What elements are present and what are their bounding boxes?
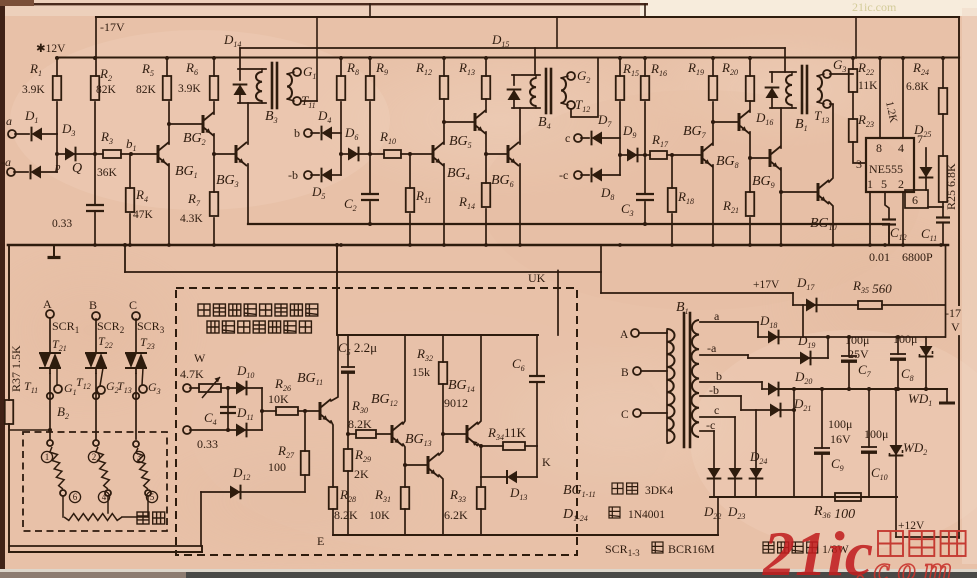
diode D3 (65, 147, 76, 160)
diode D14 (233, 85, 246, 96)
wire col to D6 (341, 153, 348, 155)
svg-text:9012: 9012 (444, 396, 468, 410)
wire C9 col bot (821, 455, 823, 497)
wire B3 primary top (238, 68, 266, 70)
paper mottling 3 (190, 310, 670, 550)
wire bottom supply rail (710, 496, 897, 498)
wire R5 stub (166, 58, 168, 76)
svg-text:6800P: 6800P (902, 250, 933, 264)
junction (128, 243, 132, 247)
wire BG11 emitter (331, 421, 333, 487)
wire D10 cathode (244, 387, 262, 389)
wire BG10 emitter (829, 202, 833, 245)
resistor R18 (668, 188, 677, 212)
wire +17V row a (793, 304, 806, 306)
junction (831, 243, 835, 247)
junction (851, 56, 855, 60)
terminal G3 (823, 70, 831, 78)
svg-text:B: B (89, 298, 97, 312)
svg-text:R3411K: R3411K (487, 425, 526, 442)
junction (518, 243, 522, 247)
wire pin8 up (879, 58, 881, 138)
wire BG3 collector (247, 103, 249, 144)
transformer B1 secondary coil (817, 76, 822, 102)
resistor R8 (337, 76, 346, 100)
transformer B4 primary coil (530, 78, 536, 106)
wire D3 to R3 (73, 153, 103, 155)
wire right edge lower (958, 336, 960, 538)
capacitor C2 (361, 193, 379, 195)
transistor BG3 (235, 145, 238, 163)
motor terminal 5 (145, 490, 151, 496)
wire BG6 emitter (519, 164, 521, 245)
svg-text:6.8K: 6.8K (906, 81, 929, 93)
wire R29 to E rail (347, 471, 349, 535)
wire B in (641, 370, 667, 372)
wire D12 return col (200, 492, 202, 546)
svg-text:1: 1 (45, 452, 50, 462)
svg-text:82K: 82K (136, 84, 157, 96)
transformer B1 core bar 2 (806, 66, 809, 113)
wire B3 sec top (287, 72, 294, 74)
wire BG6 collector (519, 108, 521, 144)
junction (867, 387, 871, 391)
svg-text:2K: 2K (354, 467, 369, 481)
wire B3 diode col top (239, 69, 241, 80)
wire BG14 collector (478, 444, 481, 487)
wire WD1 col top (925, 337, 927, 346)
wire C2 col (369, 154, 371, 194)
diode D10 (236, 381, 247, 394)
svg-text:15k: 15k (412, 365, 430, 379)
wire R33 to E rail (480, 509, 482, 535)
wire R1 stub (56, 58, 58, 76)
transformer B1 core bar 1 (801, 66, 804, 113)
svg-text:1N4001: 1N4001 (628, 509, 665, 521)
junction (123, 243, 127, 247)
wire row to cap033 (94, 154, 96, 205)
diode D5 (322, 168, 333, 181)
capacitor C9 (814, 447, 830, 449)
junction (618, 56, 622, 60)
pin6 box (905, 190, 928, 208)
svg-text:100: 100 (268, 460, 286, 474)
wire BG1 emitter (168, 164, 170, 245)
capacitor 0.33 (86, 204, 104, 206)
junction (48, 428, 52, 432)
resistor R7 (210, 192, 219, 216)
terminal B phase (633, 367, 641, 375)
diode D11 (236, 423, 247, 436)
junction (212, 243, 216, 247)
terminal -a (7, 168, 15, 176)
wire stub rail x557 (556, 17, 558, 48)
wire C3 col (644, 155, 646, 194)
wire bottom input (190, 429, 236, 431)
wire B1p coil stub (791, 72, 793, 75)
wire mid rail y224 (248, 223, 889, 225)
junction (408, 243, 412, 247)
wire +12V out (896, 536, 959, 538)
svg-text:-c: -c (706, 418, 715, 432)
wire gnd stub right (946, 389, 948, 402)
resistor R15 (616, 76, 625, 100)
scan top border line (0, 3, 648, 5)
wire input col (56, 134, 58, 172)
wire BG14 emitter (478, 335, 481, 424)
junction (93, 56, 97, 60)
wire x558 into box (557, 271, 559, 336)
motor terminal 4 (105, 490, 111, 496)
capacitor C8 (890, 353, 906, 355)
wire BG5 emitter to R14 (485, 132, 487, 183)
wire B1p diode col top (771, 72, 773, 82)
wire R24-R25 link (942, 114, 944, 156)
wire BG5 collector (485, 99, 487, 112)
resistor R19 (709, 76, 718, 100)
junction (896, 335, 900, 339)
svg-text:0.01: 0.01 (869, 250, 890, 264)
wire B3 primary bottom (238, 102, 266, 104)
junction (643, 56, 647, 60)
wire B1p primary bottom (770, 107, 796, 109)
wire +12V rail (58, 56, 959, 58)
wire BG9e to BG10 base (781, 191, 818, 193)
svg-text:82K: 82K (96, 84, 117, 96)
wire UK drop x337 (336, 245, 338, 335)
capacitor C12 (882, 218, 896, 220)
note dian-zu-jun-wei (resistors all) (763, 542, 774, 553)
wire D13 row left (481, 476, 507, 478)
wire R11 to rail (409, 214, 411, 245)
wire R37 link (9, 429, 50, 431)
wire BG12e to BG13 base (405, 464, 428, 466)
wire -b col (740, 396, 742, 410)
diode D15 (507, 90, 520, 101)
wire R1 to a-row (56, 102, 58, 134)
wire BG7c to BG8 base (713, 121, 739, 123)
junction (479, 444, 483, 448)
wire D23 bot (734, 476, 736, 497)
junction (643, 222, 647, 226)
wire C2 to rail224 (369, 202, 371, 224)
wire R31 col (404, 465, 406, 487)
wire C8 col bot (897, 361, 899, 389)
resistor R12 (440, 76, 449, 99)
triac SCR2 (85, 352, 107, 354)
svg-text:A: A (620, 329, 629, 341)
svg-text:+17V: +17V (753, 279, 780, 291)
junction (792, 408, 796, 412)
wire b step (761, 382, 763, 389)
wire T11 return (301, 100, 317, 102)
transformer B1 core bar A (683, 313, 686, 447)
terminal G2 scr (97, 386, 105, 394)
junction (670, 243, 674, 247)
junction (335, 243, 339, 247)
transformer B4 core bar 2 (550, 69, 553, 113)
svg-text:C: C (129, 298, 137, 312)
wire B1p coil stub bot (791, 105, 793, 108)
scan dark left band (0, 0, 5, 578)
zener WD1 bar wings (920, 351, 933, 357)
wire R29 col (347, 434, 349, 449)
wire BG7 emitter (712, 165, 714, 245)
junction (93, 243, 97, 247)
svg-text:6: 6 (73, 492, 78, 502)
svg-text:NE555: NE555 (869, 162, 903, 176)
wire R25 down (942, 202, 944, 217)
svg-text:a: a (714, 309, 720, 323)
svg-text:c: c (565, 131, 570, 145)
paper mottling 2 (480, 90, 920, 310)
junction (748, 243, 752, 247)
wire diode join col (261, 388, 263, 430)
junction (368, 222, 372, 226)
junction (941, 56, 945, 60)
junction (643, 153, 647, 157)
svg-text:4: 4 (102, 492, 107, 502)
wire C6 col (536, 335, 538, 376)
wire -b row D21 (741, 409, 770, 411)
terminal A phase (631, 329, 639, 337)
svg-text:47K: 47K (133, 209, 154, 221)
transistor BG7 (701, 146, 704, 164)
terminal W top (183, 384, 191, 392)
resistor R10 (384, 150, 401, 158)
wire BG8 emitter to R21 (749, 132, 751, 192)
capacitor C4 (220, 406, 236, 408)
watermark dian-zi-wang (878, 531, 903, 556)
wire R23 to pin3 (853, 142, 866, 163)
wire D24 bot (755, 476, 757, 497)
paper tone top-right cream (640, 0, 977, 16)
wire x945 drop (945, 245, 947, 337)
wire R8 to inputs col (340, 102, 342, 175)
wire D24 col (755, 410, 757, 468)
wire D12 row (201, 491, 305, 493)
wire BG8 collector (749, 101, 751, 112)
wire -a to D2 (14, 171, 28, 173)
ground symbol (53, 245, 55, 256)
paper mottling 1 (10, 30, 390, 210)
wire right edge drop (958, 17, 960, 305)
wire R35 to corner (882, 304, 945, 306)
wire pin1 down (869, 192, 871, 245)
svg-text:100μ: 100μ (864, 427, 888, 441)
wire motor t4 down (107, 496, 109, 513)
motor winding 3 (136, 448, 150, 489)
transformer B1 primary winding (667, 329, 675, 443)
wire C in (641, 412, 667, 414)
resistor R13 (482, 76, 491, 99)
motor winding 1 (50, 447, 64, 489)
wire R9 stub (369, 58, 371, 76)
node circle 2 (88, 451, 99, 462)
wire D22 bot (713, 476, 715, 497)
wire col828 (827, 337, 829, 358)
wire D25 col bot (925, 177, 927, 190)
node circle 5 (146, 491, 157, 502)
resistor R30 (356, 430, 376, 438)
wire D7 to col (602, 137, 620, 139)
wire pin5 down (885, 192, 889, 219)
svg-text:25V: 25V (848, 347, 869, 361)
wire C11 to rail (942, 223, 944, 246)
resistor R32 (439, 362, 448, 384)
capacitor C11 (936, 216, 950, 218)
diode D7 (592, 131, 603, 144)
diode D25 (919, 167, 932, 178)
terminal G1 scr (54, 385, 62, 393)
wire R34 row (481, 445, 503, 447)
wire R4 to rail (129, 214, 131, 245)
svg-text:R37 1.5K: R37 1.5K (9, 345, 23, 392)
wire stub top x370 (369, 4, 371, 17)
resistor R34 (503, 442, 525, 450)
wire C9 col top (821, 389, 823, 448)
note wei 1 (609, 507, 620, 518)
terminal T2 main (93, 393, 99, 399)
svg-text:6.2K: 6.2K (444, 508, 468, 522)
outer box right edge (201, 546, 203, 552)
wire motor t6 down (62, 496, 64, 517)
wire node to D3 (57, 153, 65, 155)
wire BG2 collector (213, 102, 215, 114)
wire x125 drop (124, 245, 126, 272)
terminal T1 main (47, 393, 53, 399)
svg-text:3.9K: 3.9K (178, 83, 201, 95)
wire B3 sec bot (287, 99, 294, 101)
svg-text:K: K (542, 455, 551, 469)
wire A in (639, 332, 667, 334)
junction (868, 243, 872, 247)
wire R27b to D12 row (304, 475, 306, 492)
transformer B4 secondary coil (561, 78, 566, 103)
scan top-left corner blotch (0, 0, 34, 6)
wire R2 col upper (95, 17, 96, 76)
wire R30 row (348, 433, 356, 435)
resistor R16 (641, 76, 650, 100)
diode D24v (749, 468, 762, 479)
svg-text:BCR16M: BCR16M (668, 542, 715, 556)
junction (368, 56, 372, 60)
note wei 2 (652, 542, 663, 553)
junction (924, 387, 928, 391)
wire R28 to E rail (332, 509, 334, 535)
junction (442, 120, 446, 124)
wire R24 stub (942, 58, 944, 88)
zener WD2 bar wings (890, 450, 903, 456)
wire -17V top rail (96, 16, 959, 18)
junction (303, 409, 307, 413)
junction (618, 153, 622, 157)
wire BG9 collector (780, 108, 782, 148)
wire R21 to rail (749, 218, 751, 245)
IC U1 NE555 body (866, 138, 914, 192)
wire pot to node (221, 387, 236, 389)
wire tap -c (700, 430, 714, 432)
diode D20 (768, 382, 779, 395)
transistor BG12 (391, 425, 394, 443)
wire BG4 emitter (443, 164, 445, 245)
resistor R3 (103, 150, 121, 158)
wire tap c (700, 416, 735, 418)
wire R7 to rail (213, 218, 215, 245)
wire -a col (747, 355, 749, 358)
resistor R35 (858, 301, 882, 309)
wire -a row (748, 357, 800, 359)
junction (441, 432, 445, 436)
wire D17 to R35 (814, 304, 858, 306)
junction (484, 56, 488, 60)
transformer B3 secondary coil (287, 74, 292, 99)
wire tap -a (700, 354, 748, 356)
wire node to R17 (645, 154, 650, 156)
wire R30 to BG12 (376, 433, 392, 435)
terminal T11 (293, 97, 301, 105)
junction (901, 56, 905, 60)
wire a col (757, 322, 759, 337)
wire R4 col (129, 154, 131, 188)
transistor BG11 (319, 402, 322, 420)
svg-text:5: 5 (150, 492, 155, 502)
wire R16 to row (644, 102, 646, 155)
junction (779, 243, 783, 247)
wire R6 stub (213, 58, 215, 76)
resistor R37 (5, 400, 14, 424)
wire BG8e to BG9 base (750, 157, 770, 159)
diode D13 (507, 471, 517, 483)
svg-text:0.33: 0.33 (197, 437, 218, 451)
terminal A scr (46, 310, 54, 318)
wire B4 primary top (512, 74, 540, 76)
wire R13 stub (485, 58, 487, 76)
diode D23 (728, 468, 741, 479)
junction (167, 243, 171, 247)
wire D1 to col (42, 133, 57, 135)
svg-text:10K: 10K (369, 508, 390, 522)
terminal T13 (823, 100, 831, 108)
terminal C scr (132, 312, 140, 320)
wire C6 to K node (536, 382, 538, 446)
transistor BG9 (769, 149, 772, 167)
motor terminal 3 (133, 441, 139, 447)
wire R22-R23 link (852, 92, 854, 119)
wire D9 to node (635, 154, 645, 156)
resistor R17 (650, 151, 667, 159)
svg-text:0.33: 0.33 (52, 218, 72, 230)
svg-text:16V: 16V (830, 432, 851, 446)
wire B4 primary bottom (512, 107, 540, 109)
svg-text:a: a (6, 114, 12, 128)
wire stub rail x856 (855, 17, 857, 58)
junction (939, 243, 943, 247)
wire BG2 emitter to R7 (213, 134, 215, 192)
wire R26 to base (298, 410, 320, 412)
wire primary spine (666, 331, 668, 441)
wire R14 to rail (485, 209, 487, 245)
transistor BG2 (202, 115, 205, 133)
svg-text:-b: -b (288, 168, 298, 182)
wire x803 link (802, 305, 804, 337)
wire R12 stub (443, 58, 445, 76)
junction (883, 243, 887, 247)
svg-text:b: b (294, 126, 300, 140)
junction (901, 243, 905, 247)
label dian-ji (motor) (137, 512, 149, 524)
transistor BG4 (432, 145, 435, 163)
